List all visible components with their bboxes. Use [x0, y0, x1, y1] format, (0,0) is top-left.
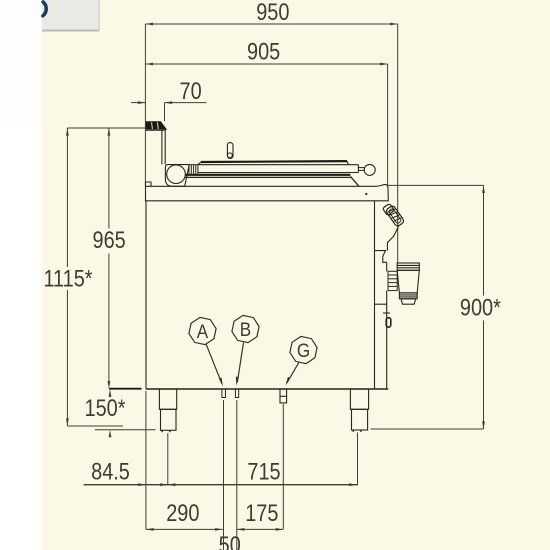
950 arrows [145, 23, 153, 26]
905 arrows [145, 63, 153, 66]
dimension 950 line [145, 23, 397, 25]
svg-text:G: G [297, 340, 310, 361]
right panel capsule handle [386, 318, 391, 328]
text 1115* [43, 265, 92, 292]
70 arrows [138, 101, 146, 104]
left leg axis extension [167, 433, 169, 485]
dimension 70 tails [131, 102, 145, 104]
svg-text:70: 70 [180, 77, 202, 104]
dimension 1115 line [66, 128, 68, 267]
text 950 [256, 0, 289, 26]
worktop screw dot [365, 193, 367, 195]
175 arrows [237, 528, 245, 531]
1115 arrows [66, 128, 69, 136]
dimension 1115 bottom segment [67, 425, 123, 427]
svg-text:900*: 900* [460, 294, 501, 321]
callout G [287, 336, 317, 382]
fitting B [235, 389, 238, 398]
worktop band outline [146, 184, 389, 200]
dimension 900 line [483, 185, 485, 295]
hinge black band [146, 122, 166, 131]
valve stem block [388, 271, 397, 290]
svg-text:905: 905 [247, 38, 280, 65]
node A extension [223, 400, 225, 550]
svg-text:150*: 150* [85, 394, 126, 421]
body left edge [145, 201, 147, 389]
text 84.5 [91, 458, 130, 485]
dimension 965 line [108, 128, 110, 229]
lid right knob [364, 164, 375, 175]
text 965 [92, 226, 125, 253]
dimension 150 bottom line [95, 429, 156, 431]
gray header box [42, 0, 99, 30]
right leg [350, 389, 368, 432]
dimension 84.5 and 715 line [84, 484, 358, 486]
hinge bracket arm [161, 130, 163, 165]
965 arrows [108, 128, 111, 136]
worktop rear notch [146, 182, 152, 186]
body right edge [374, 201, 376, 389]
lid handle bracket ribs [189, 165, 198, 175]
text 70 [180, 77, 202, 104]
wire back extension line [144, 24, 146, 186]
left leg [159, 389, 176, 432]
svg-text:A: A [197, 321, 209, 342]
lid cover top thick line [201, 160, 347, 163]
right panel tick [383, 312, 390, 314]
text 50 [219, 531, 241, 550]
dimension 290 line [146, 528, 223, 530]
back edge lower extension [145, 391, 147, 529]
84.5 arrows [138, 483, 146, 486]
290 arrows [146, 528, 154, 531]
dimension 900 bottom reference [371, 428, 484, 430]
lid center knob [227, 143, 233, 159]
text 150* [85, 394, 126, 421]
svg-text:290: 290 [166, 499, 199, 526]
reference line left top [67, 127, 145, 129]
hinge roller circle [167, 165, 186, 184]
node G extension [282, 404, 284, 529]
text 175 [245, 499, 278, 526]
text 900* [460, 294, 501, 321]
callout B [232, 315, 259, 382]
dimension arrowheads [66, 23, 485, 531]
node B extension [236, 400, 238, 550]
callout A [189, 317, 222, 383]
dimension 70 extension [164, 103, 166, 121]
dimension 965 bottom bar [109, 388, 142, 390]
text 715 [247, 458, 280, 485]
dimension 175 line [237, 528, 283, 530]
right front panel edge [386, 262, 388, 271]
svg-text:175: 175 [245, 499, 278, 526]
lid plate [198, 165, 359, 173]
lid skirt right slant [350, 176, 359, 186]
dimension 900 reference top [387, 184, 484, 186]
dimension 905 right extension [387, 64, 389, 185]
fitting A [222, 389, 226, 398]
svg-text:1115*: 1115* [43, 265, 92, 292]
dimension 950 right extension [397, 24, 399, 263]
lid skirt thick lines [185, 174, 350, 176]
900 arrows [482, 185, 485, 193]
715 arrows [168, 483, 176, 486]
lid right knob connector [358, 167, 364, 169]
svg-text:84.5: 84.5 [91, 458, 130, 485]
svg-text:965: 965 [92, 226, 125, 253]
body bottom edge [146, 388, 388, 390]
bracket attach piece [383, 204, 395, 216]
hatched tilt bracket [385, 205, 405, 227]
right leg axis extension [357, 433, 359, 485]
svg-text:50: 50 [219, 531, 241, 550]
fitting G [280, 389, 287, 403]
150 arrows [109, 389, 112, 397]
text 290 [166, 499, 199, 526]
lid left bracket [165, 165, 189, 187]
right panel shelf [375, 303, 387, 305]
text 905 [247, 38, 280, 65]
svg-text:715: 715 [247, 458, 280, 485]
white left strip [0, 0, 42, 550]
dimension 905 line [145, 63, 387, 65]
svg-text:B: B [240, 319, 251, 340]
valve knob [397, 263, 419, 304]
profile under bracket [387, 226, 398, 250]
right side step profile [375, 251, 387, 263]
svg-text:950: 950 [256, 0, 289, 26]
blue logo glyph [43, 2, 46, 16]
